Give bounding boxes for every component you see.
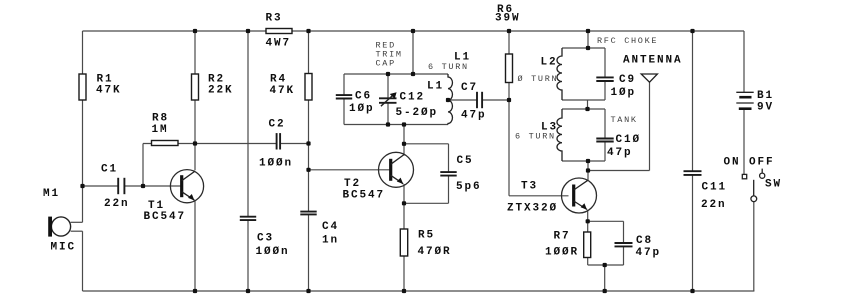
wire L3 tank bottom [562,160,605,162]
resistor R7 [584,232,591,258]
resistor R4 [305,74,312,101]
junction top rail / R2 column [193,29,197,33]
wire emitter network to ground [604,265,606,291]
wire C12 branch upper [387,74,389,98]
wire C5 loop top [404,143,449,145]
svg-text:R5: R5 [418,230,435,242]
junction tank bottom / T2 [402,122,406,126]
capacitor C2 [276,133,278,149]
svg-text:T3: T3 [521,181,538,193]
wire L1 tap to C7 [448,99,477,101]
svg-text:C1Ø: C1Ø [616,134,642,146]
capacitor C9 [596,76,613,78]
svg-text:1Øp: 1Øp [349,103,375,115]
wire battery to switch [743,109,745,175]
wire tank box left upper [343,74,345,95]
svg-text:22n: 22n [104,198,130,210]
antenna [641,74,657,82]
junction R7-C8 / ground tap [603,263,607,267]
svg-text:22n: 22n [701,199,727,211]
capacitor C3 [240,216,256,218]
junction L1 tap [446,98,450,102]
capacitor C1 [117,178,119,194]
wire C3 column upper [247,31,249,217]
svg-text:CAP: CAP [376,58,396,68]
wire C5 loop right upper [448,144,450,172]
svg-text:47K: 47K [96,85,122,97]
svg-text:M1: M1 [43,188,60,200]
wire tank to T2 collector [403,125,405,156]
wire C5 loop right lower [448,176,450,204]
wire L2 tank right lower [604,81,606,100]
svg-text:B1: B1 [757,90,774,102]
svg-text:1ØØR: 1ØØR [545,247,579,259]
wire left column upper (R1 branch) [82,31,84,186]
svg-text:1ØØn: 1ØØn [256,246,290,258]
svg-text:6 TURN: 6 TURN [428,62,469,72]
junction antenna / T3 collector [586,168,590,172]
wire T1 emitter to ground [194,201,196,291]
resistor R3 [266,29,292,34]
wire L3 tank top [562,108,605,110]
junction top rail / R6 [507,29,511,33]
wire left column mic to C1 node [82,186,84,222]
svg-text:C6: C6 [355,91,372,103]
wire R6 column upper [508,31,510,54]
wire L2 tank top [562,47,605,49]
wire C2 to R4 column [280,143,308,145]
wire C5 loop bottom [404,202,449,204]
junction top rail / C3 column [246,29,250,33]
wire T1 base row left [83,185,119,187]
svg-text:C5: C5 [457,155,474,167]
wire battery column upper [743,31,745,92]
junction T2 collector / C5 [402,142,406,146]
svg-text:1n: 1n [322,235,339,247]
inductor L1 [448,74,452,124]
trimmer capacitor C12 [379,97,397,99]
svg-text:R7: R7 [554,231,571,243]
wire top supply rail [83,30,745,32]
junction tank top / feed [411,72,415,76]
junction T2 base / R4 column [306,168,310,172]
junction L3 tank bottom tap [586,159,590,163]
transistor T1 [170,170,203,203]
wire R8-C2 node row left [143,143,276,145]
junction C7 / R6 / T3 base node [507,98,511,102]
wire mic lower lead to ground [82,231,84,291]
wire T3 emitter to R7 [587,210,589,232]
junction ground rail / T1 emitter [193,289,197,293]
svg-text:C12: C12 [400,92,426,104]
wire C3 column lower [247,220,249,291]
wire R7-C8 bottom link [588,264,624,266]
wire C7 to R6 node [482,99,509,101]
junction tank top / C12 [386,72,390,76]
wire L2 tank bottom [562,99,605,101]
svg-text:47ØR: 47ØR [418,246,452,258]
resistor R1 [79,74,86,100]
junction C2 / R4 column [306,141,310,145]
svg-text:1Øp: 1Øp [611,87,637,99]
wire L3 tank right lower [604,142,606,161]
junction T2 emitter / C5 / R5 [402,201,406,205]
capacitor C4 [300,211,316,213]
resistor R8 [152,141,179,146]
svg-text:1M: 1M [152,124,169,136]
svg-text:47p: 47p [461,110,487,122]
junction R8 / T1 base [141,184,145,188]
wire inter-tank link [587,100,589,109]
wire T3 collector [587,171,589,182]
wire R7 lower lead [587,258,589,266]
wire R2 / T1 collector column [194,31,196,170]
wire R8 feedback drop [142,144,144,187]
wire tank box bottom [344,124,448,126]
wire T2 emitter / R5 column [403,184,405,291]
battery B1 9V [736,91,753,93]
capacitor C8 [615,242,633,244]
wire emitter to C8 top [588,220,624,222]
svg-text:6 TURN: 6 TURN [515,131,556,141]
svg-text:ANTENNA: ANTENNA [623,55,683,67]
svg-text:47p: 47p [636,247,662,259]
junction ground rail / C4 [306,289,310,293]
wire C8 lower lead [623,247,625,265]
svg-text:39W: 39W [495,13,521,25]
junction ground rail / C3 [246,289,250,293]
svg-text:22K: 22K [208,85,234,97]
junction L2-L3 link [585,107,589,111]
inductor L2 rfc choke [557,48,562,100]
svg-text:SW: SW [765,179,782,191]
svg-text:4W7: 4W7 [266,38,292,50]
inductor L3 tank [557,109,562,161]
switch SW on/off [742,174,746,178]
wire T2 base row [309,169,391,171]
svg-text:R3: R3 [266,13,283,25]
svg-text:L1: L1 [427,81,444,93]
junction ground rail / R5 [402,289,406,293]
junction top rail / oscillator feed [411,29,415,33]
svg-text:5-2Øp: 5-2Øp [396,107,439,119]
svg-text:C8: C8 [636,235,653,247]
junction tank bottom / C12 [386,122,390,126]
junction ground rail / C11 [690,289,694,293]
wire antenna down-lead [649,82,651,171]
svg-text:MIC: MIC [51,242,77,254]
svg-text:BC547: BC547 [144,211,187,223]
wire oscillator feed from rail [412,31,414,74]
resistor R6 [506,54,513,83]
svg-text:L2: L2 [541,57,558,69]
svg-text:47p: 47p [607,147,633,159]
resistor R5 [400,229,407,256]
capacitor C11 [684,170,702,172]
junction ground rail / emitter network [603,289,607,293]
svg-text:C11: C11 [702,182,728,194]
svg-text:RFC CHOKE: RFC CHOKE [597,36,658,46]
wire T3 base row [509,195,569,197]
capacitor C10 [596,138,613,140]
svg-text:C2: C2 [269,119,286,131]
svg-text:ON: ON [724,157,741,169]
svg-text:C3: C3 [257,233,274,245]
capacitor C6 [336,94,352,96]
svg-text:BC547: BC547 [343,190,386,202]
wire C4 column lower [308,215,310,292]
junction T3 emitter / R7 / C8 [586,219,590,223]
transistor T3 [562,178,597,213]
wire T1 base row right [125,185,182,187]
wire bottom ground rail [83,290,755,292]
junction top rail / C11 [690,29,694,33]
svg-text:1ØØn: 1ØØn [259,158,293,170]
capacitor C5 [440,171,456,173]
wire antenna feed row [588,170,650,172]
wire tank box top [344,73,448,75]
svg-text:Ø TURN: Ø TURN [518,74,559,84]
wire L3 tank right upper [604,109,606,138]
wire C8 upper lead [623,221,625,242]
svg-text:T2: T2 [344,178,361,190]
wire C12 branch lower [387,103,389,125]
wire tank box left lower [343,99,345,125]
svg-text:R8: R8 [152,113,169,125]
capacitor C7 [476,92,478,108]
wire L2 tank right upper [604,48,606,77]
wire RFC choke feed [587,31,589,48]
junction L2 tank top tap [586,46,590,50]
svg-text:C1: C1 [101,164,118,176]
junction R8-C2-collector node [193,141,197,145]
svg-text:OFF: OFF [749,157,775,169]
svg-text:C4: C4 [322,221,339,233]
svg-text:R4: R4 [270,74,287,86]
microphone M1 [51,217,70,236]
resistor R2 [192,74,199,100]
wire C11 column lower [692,175,694,291]
svg-text:5p6: 5p6 [456,181,482,193]
svg-text:ZTX32Ø: ZTX32Ø [507,203,558,215]
wire R4 column upper [308,31,310,212]
junction top rail / RFC choke [586,29,590,33]
wire C11 column upper [692,31,694,171]
junction C1 / R1 / mic node [80,184,84,188]
svg-text:47K: 47K [270,85,296,97]
svg-text:C9: C9 [619,74,636,86]
wire tank to antenna node [587,161,589,171]
svg-text:9V: 9V [757,102,774,114]
junction top rail / R4 column [306,29,310,33]
wire R6 column lower [508,83,510,196]
transistor T2 [379,152,414,187]
svg-text:C7: C7 [461,82,478,94]
svg-text:TANK: TANK [611,115,638,125]
wire switch to ground [753,202,755,291]
